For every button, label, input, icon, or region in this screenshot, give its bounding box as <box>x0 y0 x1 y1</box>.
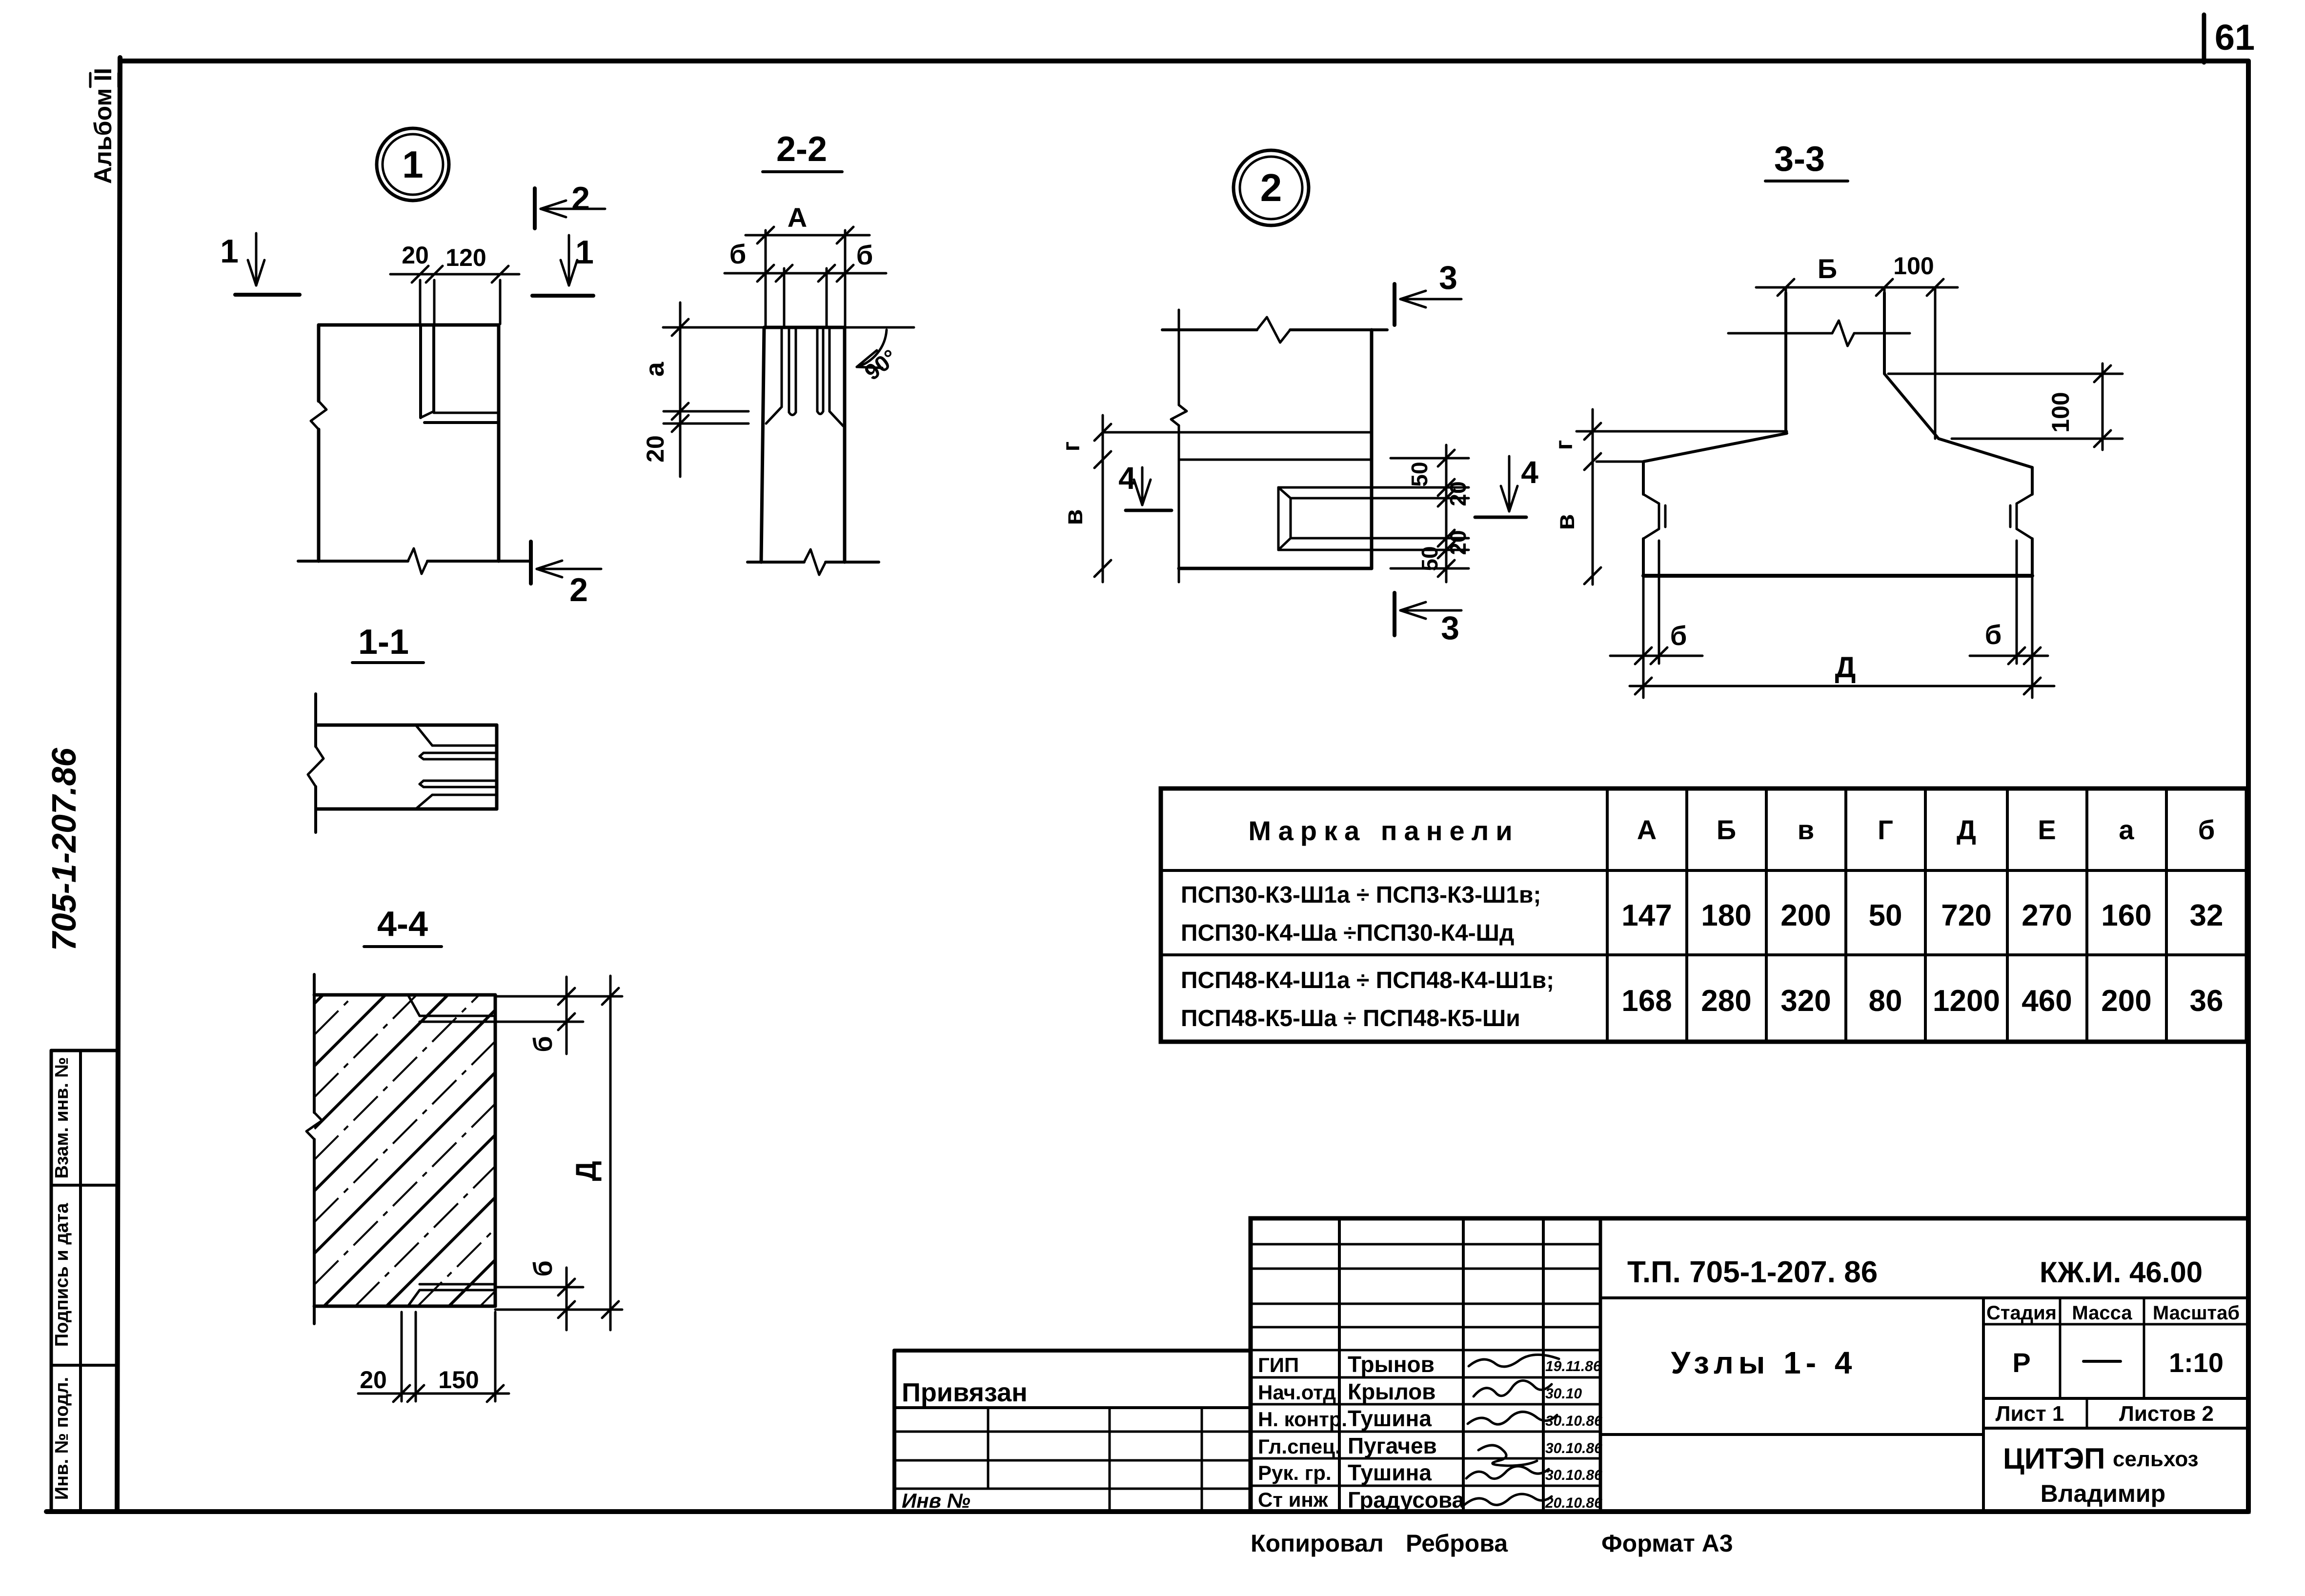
title block signature row lines <box>1251 1350 1600 1486</box>
svg-text:Рук. гр.: Рук. гр. <box>1258 1461 1332 1484</box>
section 2-2 label <box>763 130 842 172</box>
svg-text:Ст инж: Ст инж <box>1258 1488 1329 1511</box>
section 1-1 outline <box>308 694 497 832</box>
svg-text:120: 120 <box>445 244 486 271</box>
svg-text:19.11.86: 19.11.86 <box>1545 1358 1601 1374</box>
svg-text:2: 2 <box>571 180 590 217</box>
svg-text:Гл.спец.: Гл.спец. <box>1258 1435 1341 1458</box>
section 2-2 angle 90 annotation <box>845 327 914 385</box>
svg-text:Н. контр.: Н. контр. <box>1258 1408 1347 1431</box>
svg-text:50: 50 <box>1869 899 1902 932</box>
svg-text:50: 50 <box>1417 546 1442 571</box>
svg-text:20: 20 <box>402 242 429 269</box>
svg-text:30.10.86: 30.10.86 <box>1545 1467 1602 1483</box>
section 4-4 bottom groove <box>408 1284 495 1306</box>
title block signature dates <box>1545 1358 1602 1511</box>
svg-text:180: 180 <box>1701 899 1751 932</box>
section 2-2 extension stub lines <box>664 411 748 424</box>
section 1-1 grooves <box>416 725 497 809</box>
section 2-2 dimensions б <box>725 239 886 326</box>
svg-text:ПСП48-К4-Ш1а ÷ ПСП48-К4-Ш1в;: ПСП48-К4-Ш1а ÷ ПСП48-К4-Ш1в; <box>1181 968 1554 993</box>
section 3-3 bottom dimensions б б Д <box>1610 541 2054 698</box>
sidebar label: Подпись и дата <box>52 1203 72 1347</box>
detail 1 dimension 20 <box>402 242 429 269</box>
svg-text:Лист 1: Лист 1 <box>1996 1402 2064 1426</box>
svg-text:А: А <box>788 202 807 233</box>
svg-text:Марка панели: Марка панели <box>1248 815 1519 846</box>
svg-text:в: в <box>1551 514 1580 530</box>
title block revision rows (empty) <box>1251 1244 1600 1327</box>
section 2-2 dimension А <box>746 202 869 326</box>
svg-text:б: б <box>528 1260 558 1276</box>
table row 1 panel marks <box>1181 882 1541 946</box>
section 3-3 stem with break <box>1728 293 1910 433</box>
svg-text:б: б <box>1985 619 2002 650</box>
section marker 4 (right) of detail 2 <box>1475 455 1538 517</box>
svg-text:Инв №: Инв № <box>902 1489 971 1512</box>
svg-text:36: 36 <box>2190 984 2224 1018</box>
svg-text:100: 100 <box>1893 252 1934 280</box>
svg-text:Владимир: Владимир <box>2041 1480 2165 1507</box>
svg-text:270: 270 <box>2022 899 2072 932</box>
svg-text:1: 1 <box>402 143 423 186</box>
svg-text:30.10: 30.10 <box>1545 1386 1582 1402</box>
svg-text:147: 147 <box>1621 899 1672 932</box>
sidebar label: Взам. инв. № <box>52 1057 72 1178</box>
section marker 1 (right) of detail 1 <box>532 234 594 296</box>
svg-text:20: 20 <box>1445 530 1471 555</box>
panel marks table frame <box>1161 788 2247 1042</box>
svg-text:Листов 2: Листов 2 <box>2119 1402 2214 1426</box>
table row 2 values <box>1621 984 2223 1018</box>
section 2-2 column outline <box>761 327 845 562</box>
svg-text:2-2: 2-2 <box>776 130 827 169</box>
title block outer frame <box>1251 1218 2248 1512</box>
title block document number <box>1627 1255 2203 1289</box>
svg-text:4-4: 4-4 <box>377 905 428 944</box>
title block scale 1:10 <box>2169 1347 2224 1378</box>
svg-text:Реброва: Реброва <box>1406 1530 1508 1557</box>
svg-text:сельхоз: сельхоз <box>2113 1447 2198 1471</box>
svg-text:a: a <box>640 362 669 377</box>
page frame bottom border <box>46 1509 2248 1514</box>
svg-text:Привязан: Привязан <box>902 1378 1028 1407</box>
svg-text:1: 1 <box>575 234 594 271</box>
svg-text:100: 100 <box>2047 392 2074 432</box>
svg-text:280: 280 <box>1701 984 1751 1018</box>
section 3-3 label <box>1765 140 1848 181</box>
detail 1 wall outline <box>311 325 499 561</box>
section 4-4 bottom dimensions 20 150 <box>358 1312 509 1402</box>
svg-text:20.10.86: 20.10.86 <box>1545 1495 1602 1511</box>
detail 1 dimension 120 <box>445 244 486 271</box>
svg-text:Г: Г <box>1878 814 1893 845</box>
title block sheet title Узлы 1-4 <box>1671 1345 1857 1380</box>
svg-text:61: 61 <box>2215 17 2255 58</box>
svg-text:3: 3 <box>1441 609 1459 646</box>
svg-text:ПСП30-К3-Ш1а ÷ ПСП3-К3-Ш1в;: ПСП30-К3-Ш1а ÷ ПСП3-К3-Ш1в; <box>1181 882 1541 908</box>
svg-text:в: в <box>1059 509 1088 525</box>
svg-text:г: г <box>1550 440 1577 450</box>
svg-text:3-3: 3-3 <box>1774 140 1825 179</box>
svg-text:б: б <box>856 240 873 270</box>
table row 1 values <box>1621 899 2223 932</box>
table header МАРКА ПАНЕЛИ <box>1248 815 1519 846</box>
section 1-1 label <box>352 623 424 663</box>
svg-text:32: 32 <box>2190 899 2224 932</box>
section marker 2 (bottom) of detail 1 <box>531 542 601 608</box>
section 3-3 right dovetail notch <box>2010 494 2032 539</box>
svg-text:Б: Б <box>1717 814 1736 845</box>
svg-text:Масса: Масса <box>2072 1302 2132 1324</box>
section marker 2 (top) of detail 1 <box>535 180 605 228</box>
svg-text:20: 20 <box>360 1366 387 1394</box>
detail 1 dimension line <box>390 266 519 324</box>
svg-text:Р: Р <box>2012 1347 2030 1378</box>
title block stage P <box>2012 1347 2030 1378</box>
svg-text:Масштаб: Масштаб <box>2153 1302 2240 1324</box>
section 3-3 left dimensions г and в <box>1550 409 1787 585</box>
svg-text:б: б <box>528 1036 558 1052</box>
svg-text:Стадия: Стадия <box>1986 1302 2057 1324</box>
svg-text:4: 4 <box>1521 455 1538 490</box>
svg-text:2: 2 <box>569 571 588 608</box>
detail 2 right dimensions 50 20 20 50 <box>1372 445 1471 582</box>
svg-text:КЖ.И. 46.00: КЖ.И. 46.00 <box>2040 1256 2203 1289</box>
section 4-4 dimension б bottom <box>495 1260 622 1330</box>
section 3-3 right step 100 dimension <box>1888 364 2123 450</box>
table column headers <box>1637 814 2215 845</box>
title block sheet numbers <box>1996 1402 2214 1426</box>
title block mass dash <box>2083 1360 2121 1363</box>
svg-text:720: 720 <box>1941 899 1991 932</box>
svg-text:1200: 1200 <box>1933 984 2000 1018</box>
svg-text:Градусова: Градусова <box>1348 1487 1465 1513</box>
section 4-4 dimension б top <box>495 977 622 1054</box>
detail 2 callout circle <box>1233 150 1309 225</box>
detail 1 slot and ledge <box>421 325 499 423</box>
svg-text:ПСП48-К5-Ша ÷ ПСП48-К5-Ши: ПСП48-К5-Ша ÷ ПСП48-К5-Ши <box>1181 1006 1520 1031</box>
document number 705-1-207.86 (handwritten, rotated) <box>45 747 83 951</box>
section marker 4 (left) of detail 2 <box>1118 461 1172 510</box>
svg-text:а: а <box>2119 814 2134 845</box>
svg-text:Пугачев: Пугачев <box>1348 1433 1437 1458</box>
title block signature names <box>1348 1352 1465 1513</box>
svg-text:20: 20 <box>642 435 669 463</box>
svg-text:ЦИТЭП: ЦИТЭП <box>2003 1442 2105 1475</box>
detail 1 bottom break line <box>298 548 531 574</box>
detail 2 outline <box>1103 310 1387 582</box>
svg-text:200: 200 <box>1780 899 1831 932</box>
svg-text:Т.П. 705-1-207. 86: Т.П. 705-1-207. 86 <box>1627 1255 1878 1289</box>
album label: Альбом II <box>89 68 119 184</box>
svg-text:б: б <box>729 239 747 269</box>
detail 1 callout circle <box>377 128 449 201</box>
svg-text:Тушина: Тушина <box>1348 1460 1432 1485</box>
section marker 1 (left) of detail 1 <box>220 233 300 295</box>
svg-text:460: 460 <box>2022 984 2072 1018</box>
svg-text:в: в <box>1798 814 1814 845</box>
section 4-4 dimension Д <box>570 976 619 1330</box>
svg-text:А: А <box>1637 814 1657 845</box>
svg-text:1-1: 1-1 <box>358 623 409 662</box>
svg-text:2: 2 <box>1260 166 1282 209</box>
binding annex label Инв № <box>902 1489 971 1512</box>
svg-text:Е: Е <box>2038 814 2056 845</box>
svg-text:3: 3 <box>1439 259 1457 296</box>
svg-text:80: 80 <box>1869 984 1902 1018</box>
svg-text:Альбом II: Альбом II <box>89 68 117 184</box>
table row 2 panel marks <box>1181 968 1554 1031</box>
page frame right border <box>2246 61 2251 1512</box>
svg-text:200: 200 <box>2101 984 2151 1018</box>
section 3-3 left dovetail notch <box>1643 494 1665 539</box>
svg-text:4: 4 <box>1118 461 1136 496</box>
svg-text:г: г <box>1057 442 1085 452</box>
svg-text:б: б <box>2198 814 2215 845</box>
svg-text:Инв. № подл.: Инв. № подл. <box>52 1377 72 1500</box>
svg-text:160: 160 <box>2101 899 2151 932</box>
page number 61 <box>2215 17 2255 58</box>
detail 2 pocket <box>1278 487 1372 550</box>
title block right part structure <box>1600 1298 2248 1512</box>
section 2-2 dimension 20 <box>642 435 669 463</box>
svg-text:Д: Д <box>570 1161 602 1181</box>
svg-text:Нач.отд: Нач.отд <box>1258 1381 1336 1404</box>
page frame left border <box>117 58 120 1512</box>
svg-text:1: 1 <box>220 233 239 270</box>
title block handwritten signatures <box>1464 1354 1559 1505</box>
sidebar label: Инв. № подл. <box>52 1377 72 1500</box>
svg-text:Узлы 1- 4: Узлы 1- 4 <box>1671 1345 1857 1380</box>
svg-text:ПСП30-К4-Ша ÷ПСП30-К4-Шд: ПСП30-К4-Ша ÷ПСП30-К4-Шд <box>1181 920 1514 946</box>
title block organization <box>2003 1442 2198 1507</box>
svg-text:1:10: 1:10 <box>2169 1347 2224 1378</box>
svg-text:Копировал: Копировал <box>1251 1530 1384 1557</box>
svg-text:20: 20 <box>1445 481 1471 506</box>
svg-text:ГИП: ГИП <box>1258 1354 1299 1376</box>
detail 2 dimensions г and в <box>1057 415 1111 582</box>
svg-text:320: 320 <box>1780 984 1831 1018</box>
svg-text:168: 168 <box>1621 984 1672 1018</box>
section 2-2 dimension a (slot depth) <box>640 303 688 477</box>
section 2-2 top reference line <box>663 326 765 329</box>
section 3-3 top dimensions Б and 100 <box>1756 252 1958 439</box>
binding annex label Привязан <box>902 1378 1028 1407</box>
section 2-2 bottom break line <box>748 549 879 575</box>
section marker 3 (top) of detail 2 <box>1395 259 1461 325</box>
title block signature columns <box>1339 1218 1600 1512</box>
svg-text:Б: Б <box>1818 253 1837 284</box>
svg-text:30.10.86: 30.10.86 <box>1545 1440 1602 1456</box>
svg-text:Д: Д <box>1835 651 1856 684</box>
section 4-4 label <box>364 905 442 947</box>
page number 61 tick <box>2202 15 2206 62</box>
svg-text:Тушина: Тушина <box>1348 1406 1432 1431</box>
svg-text:50: 50 <box>1407 462 1432 486</box>
svg-text:Подпись и дата: Подпись и дата <box>52 1203 72 1347</box>
section 4-4 top groove <box>408 995 495 1022</box>
svg-text:б: б <box>1670 620 1687 651</box>
svg-text:150: 150 <box>438 1366 479 1394</box>
section 3-3 footing outline <box>1643 374 2032 576</box>
page frame top border <box>122 59 2248 63</box>
svg-text:Трынов: Трынов <box>1348 1352 1435 1377</box>
svg-text:Крылов: Крылов <box>1348 1379 1436 1404</box>
svg-text:Формат А3: Формат А3 <box>1601 1530 1733 1557</box>
title block signature role labels <box>1258 1354 1347 1511</box>
section 2-2 grooves <box>766 327 843 426</box>
svg-text:Д: Д <box>1957 814 1976 845</box>
svg-text:30.10.86: 30.10.86 <box>1545 1413 1602 1429</box>
footer text Копировал Реброва Формат А3 <box>1251 1530 1733 1557</box>
section marker 3 (bottom) of detail 2 <box>1395 593 1461 646</box>
sidebar boxes outline <box>51 1051 117 1512</box>
svg-text:Взам. инв. №: Взам. инв. № <box>52 1057 72 1178</box>
svg-text:705-1-207.86: 705-1-207.86 <box>45 747 83 951</box>
binding annex outline <box>894 1351 1251 1512</box>
title block stage mass scale headers <box>1986 1302 2240 1324</box>
section 4-4 hatched panel <box>306 974 495 1324</box>
